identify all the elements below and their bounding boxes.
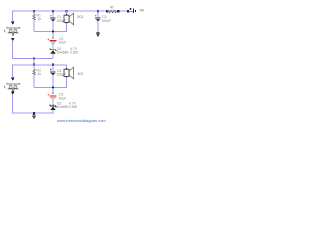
label R2 value [37,69,42,77]
capacitor C2 (highlighted red) [47,32,56,49]
node junction rail C [33,112,35,114]
label R1 value [37,14,42,22]
wire rail B [12,64,67,65]
wire node row bottom [34,87,67,88]
svg-text:47: 47 [110,6,114,10]
capacitor C3 [95,11,101,33]
resistor R3 [107,10,118,13]
label battery 9V [140,7,145,12]
node junction rail B / link [33,64,35,66]
node arrow into mic M2 [11,78,15,81]
label ZD2 value [57,101,78,109]
svg-text:1N4689: 1N4689 [57,51,69,55]
label C3 value [102,15,112,23]
wire ground rail A [12,58,53,59]
speaker SP1 [62,11,74,31]
svg-text:9V: 9V [140,7,145,12]
node junction rail A / link [33,58,35,60]
label R3 value [110,6,114,10]
label speaker 8ohm bottom [78,72,84,76]
svg-text:8Ω1: 8Ω1 [78,15,84,19]
svg-text:8Ω1: 8Ω1 [78,72,84,76]
svg-text:10uF: 10uF [59,41,67,45]
wire top supply rail [12,11,129,12]
microphone M2 [4,83,20,92]
node arrow below mic M1 [11,38,15,41]
ground arrow bottom [32,114,36,119]
capacitor C5 (highlighted red) [47,88,56,104]
node junction C1 top [52,10,54,12]
speaker SP2 [62,64,74,87]
capacitor C4 [50,64,56,86]
node junction C1 bottom [52,31,54,33]
svg-text:www.freecircuitdiagram.com: www.freecircuitdiagram.com [57,118,106,123]
svg-text:1N4689: 1N4689 [57,105,69,109]
node junction battery [127,10,129,12]
label site url [57,118,106,123]
label C4 value [57,69,67,77]
label C2 value [59,37,67,45]
microphone M1 [4,27,20,36]
wire left vertical upper (rail to mic M1) [12,11,13,22]
svg-text:1k: 1k [38,17,42,21]
node junction C4 bottom [52,86,54,88]
resistor R2 [33,64,36,87]
wire left vertical (rail B to mic M2) [12,64,13,77]
label ZD1 value [57,47,79,55]
resistor R1 [33,11,36,31]
battery B1 [129,8,136,13]
node junction speaker top [65,10,67,12]
svg-text:0.5W: 0.5W [69,105,78,109]
node junction R3 right [117,10,119,12]
node arrow below mic M2 [11,92,15,95]
node junction R1 top [33,10,35,12]
svg-text:1k: 1k [38,72,42,76]
wire node row (R1/C1/speaker junction) [34,31,67,32]
wire left vertical lower (mic M2 to rail C) [12,94,13,113]
node junction C4 top [52,64,54,66]
zener diode ZD2 [50,104,57,114]
node junction R3 left [106,10,108,12]
wire link rail A to rail B [34,58,35,65]
ground arrow (C3 return) [96,32,100,37]
svg-text:100uF: 100uF [57,73,67,77]
wire ground rail C [12,113,54,114]
node junction C3 top [97,10,99,12]
wire left vertical lower (mic M1 to rail A) [12,41,13,59]
capacitor C1 [50,11,56,31]
svg-text:10uF: 10uF [59,96,67,100]
svg-text:0.5W: 0.5W [70,51,79,55]
node arrow into mic M1 [11,22,15,25]
label C5 value [59,93,67,101]
label C1 value [57,15,67,23]
zener diode ZD1 [50,48,57,58]
label speaker 8ohm [78,15,84,19]
svg-text:100uF: 100uF [102,19,112,23]
